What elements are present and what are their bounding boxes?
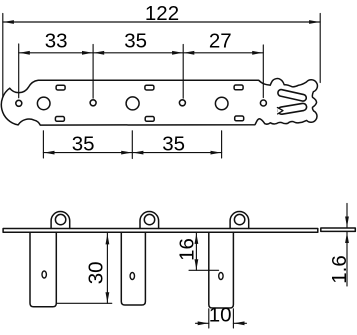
extension line right (122)	[319, 14, 321, 83]
plate thickness piece (right, 1.6)	[321, 228, 356, 231]
small screw hole 3	[179, 100, 185, 106]
svg-text:27: 27	[209, 29, 232, 52]
extension at post3 hole	[189, 269, 219, 271]
tuner post x=208.8-233.4	[209, 232, 234, 308]
top slot at x=60.6	[56, 85, 65, 90]
string eyelet at x=60.4	[51, 212, 70, 229]
extension line left (122)	[2, 14, 4, 97]
string eyelet at x=149.3	[140, 212, 159, 229]
extension line x=18.7 (33)	[18, 44, 20, 98]
extension line x=132.3	[131, 131, 133, 159]
fleur upper slot	[281, 93, 303, 98]
small screw hole 4	[260, 100, 266, 106]
svg-text:30: 30	[85, 261, 108, 284]
fleur lower slot fishtail notch	[277, 108, 283, 114]
small screw hole 2	[90, 100, 96, 106]
dimension 16 line	[195, 233, 197, 270]
extension line x=183.2	[182, 45, 184, 99]
svg-text:1.6: 1.6	[328, 255, 351, 284]
top slot at x=149.4	[145, 85, 154, 90]
tuner post x=30.0-56.3	[30, 232, 56, 307]
post hole	[130, 273, 134, 280]
fleur lower slot	[282, 107, 304, 111]
base plate bar (side view)	[3, 229, 318, 233]
svg-text:122: 122	[145, 2, 179, 25]
post hole	[42, 271, 46, 278]
dimension 1.6 lines	[346, 204, 348, 228]
extension line x=263.3 (27)	[262, 45, 264, 98]
svg-text:35: 35	[162, 132, 185, 155]
extension at post1 bottom	[57, 302, 112, 304]
big post hole 1	[37, 97, 50, 110]
extension line x=93.1	[92, 45, 94, 99]
big post hole 3	[215, 97, 228, 110]
bottom slot at x=149.7	[145, 117, 154, 122]
bottom slot at x=59.9	[55, 117, 64, 122]
post hole	[219, 273, 223, 280]
dimension 30 line	[106, 233, 108, 303]
dimension line 33/35/27	[19, 52, 264, 54]
dimension line 35/35	[43, 152, 221, 154]
svg-text:10: 10	[209, 304, 232, 327]
string eyelet at x=239.4	[230, 212, 249, 229]
dimension 10 lines (arrows outside)	[196, 322, 209, 324]
extension line x=221.6	[221, 131, 223, 158]
svg-text:35: 35	[124, 29, 147, 52]
small screw hole 1 (teardrop)	[16, 100, 22, 106]
extension lines for 10	[208, 309, 210, 328]
svg-text:16: 16	[176, 238, 199, 261]
svg-text:33: 33	[45, 29, 68, 52]
bottom slot at x=239.2	[235, 116, 244, 121]
svg-text:35: 35	[72, 132, 95, 155]
extension line x=43.4 (35 lower row)	[42, 131, 44, 158]
dimension line 122	[3, 21, 320, 23]
tuner post x=121.3-145.4	[121, 232, 145, 305]
top slot at x=238.6	[234, 85, 243, 90]
big post hole 2	[126, 97, 139, 110]
plate outline (top view) with scalloped left end and fleur right end	[1, 79, 317, 126]
